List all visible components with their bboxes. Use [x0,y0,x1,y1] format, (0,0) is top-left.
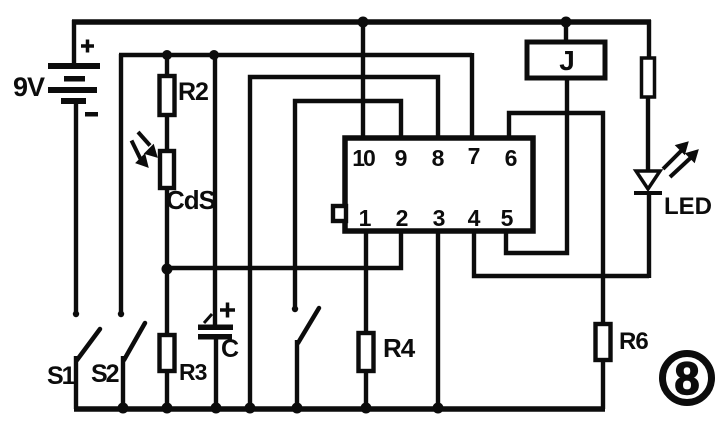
IC U1 pin-1 tab [333,206,346,221]
wire S2 bottom lead [121,356,125,409]
junction S2-ground [118,403,129,414]
junction relay J top rail [561,17,572,28]
wire pin 6 to R6 [509,113,603,324]
junction pin8-loop ground [245,403,256,414]
wire R2 to CdS [165,115,169,151]
relay J [527,42,605,78]
wire C top lead [213,55,217,326]
wire R2 top lead [165,55,169,76]
battery B1 minus sign [85,112,98,117]
IC U1 body [345,138,533,231]
junction pin10 top rail [358,17,369,28]
light arrows out of LED [663,143,697,177]
svg-text:9: 9 [395,145,408,171]
terminal S3 top [292,306,298,312]
svg-text:R3: R3 [179,359,207,385]
photoresistor CdS [160,151,174,188]
wire CdS node to pin 2 [167,231,401,268]
wire pin 5 to relay J [506,80,567,253]
svg-text:R6: R6 [619,328,648,355]
resistor R5 [642,58,655,97]
junction pin3-ground [433,403,444,414]
resistor R4 [359,333,374,371]
capacitor C [198,325,233,340]
svg-text:R2: R2 [178,78,208,106]
junction R3-ground [162,403,173,414]
svg-text:10: 10 [352,145,375,171]
wire pin 8 to ground loop [250,77,438,409]
wire top power rail [72,19,651,25]
svg-text:S2: S2 [91,360,119,388]
svg-text:6: 6 [505,145,518,171]
wire pin 3 to ground [436,231,440,409]
switch S2 [124,323,145,360]
svg-text:1: 1 [359,205,372,231]
wire bottom ground rail [74,406,605,412]
svg-text:7: 7 [468,143,481,169]
wire S3 bottom lead [295,340,299,409]
junction C-ground [211,403,222,414]
wire R6 bottom lead [601,360,605,409]
wire S1 bottom lead [74,356,78,409]
junction C-Vcc [209,50,219,60]
resistor R6 [596,324,611,360]
terminal S2 top [118,311,124,317]
svg-text:8: 8 [432,145,445,171]
svg-text:8: 8 [674,353,699,404]
wire R3 bottom lead [165,371,169,409]
wire R3 top lead [165,268,169,335]
battery B1 plus sign [81,40,94,53]
junction R2-Vcc [162,50,172,60]
capacitor C plate tick [204,314,212,323]
wire pin 4 to LED cathode [474,231,649,276]
wire pin 9 to switch S3 [295,101,401,311]
wire C bottom lead [214,339,218,409]
junction CdS node [162,264,173,275]
wire pin 7 lead [470,53,474,140]
svg-text:R4: R4 [383,333,416,363]
wire pin 10 lead [361,22,365,140]
wire battery positive lead [72,20,76,64]
resistor R2 [160,76,175,115]
wire R5 to LED [646,97,650,171]
wire Vcc sub-rail [119,53,472,57]
terminal S1 top [73,311,79,317]
wire relay J top lead [564,22,568,42]
wire battery negative lead [74,104,78,316]
LED D1 [634,171,662,195]
wire pin 1 to R4 [364,231,368,333]
svg-text:S1: S1 [47,362,76,390]
svg-text:4: 4 [468,205,481,231]
svg-text:9V: 9V [13,72,45,102]
resistor R3 [160,335,175,371]
light arrows into CdS [132,132,157,166]
wire LED cathode lead [647,195,651,278]
wire R4 bottom lead [364,371,368,409]
svg-text:CdS: CdS [166,185,216,215]
switch S3 pushbutton [298,308,319,343]
junction R4-ground [361,403,372,414]
switch S1 [77,329,100,360]
wire LED branch top lead [647,20,651,58]
svg-text:3: 3 [433,205,446,231]
svg-text:5: 5 [501,205,514,231]
junction S3-ground [292,403,303,414]
svg-text:C: C [221,335,239,363]
capacitor C plus sign [220,303,235,318]
wire S2 top lead [119,54,123,316]
svg-text:LED: LED [664,193,712,220]
svg-text:2: 2 [396,205,409,231]
svg-text:J: J [559,45,575,76]
wire CdS bottom lead [165,188,169,270]
battery B1 [48,63,100,104]
figure number circle 8 [663,354,712,403]
